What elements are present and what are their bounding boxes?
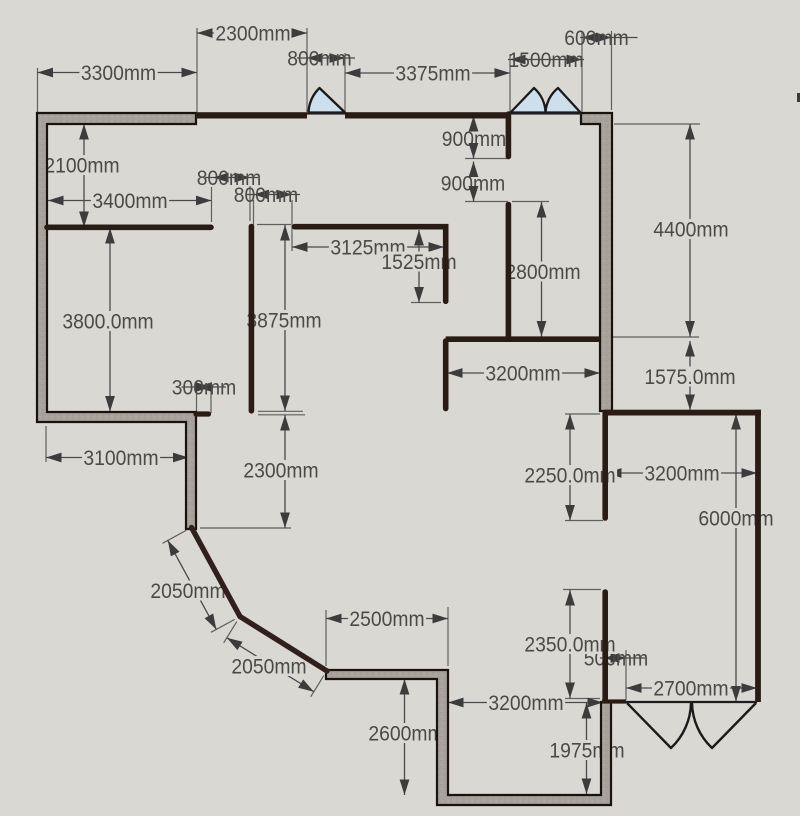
dimension 3400mm bbox=[48, 190, 212, 213]
extension line y411 for 3875mm bbox=[258, 410, 303, 412]
svg-text:3375mm: 3375mm bbox=[395, 63, 470, 86]
extension line x510 for 3375mm/1500mm bbox=[509, 54, 511, 112]
door sill single top bbox=[307, 113, 345, 115]
dimension 3375mm bbox=[345, 63, 510, 86]
extension line x211b for 300mm bbox=[210, 391, 212, 413]
extension line x197 for 2300mm/3300mm bbox=[196, 28, 198, 112]
dimension 2100mm bbox=[43, 124, 121, 227]
extension line y158 for 900mm bbox=[465, 158, 508, 160]
extension line x250 for 800mm bbox=[249, 186, 251, 221]
door double top right leaf bbox=[546, 88, 581, 113]
extension line x292 for 800mm-2/3125mm bbox=[291, 200, 293, 251]
svg-text:1500mm: 1500mm bbox=[508, 49, 583, 72]
interior wall horizontal left (y227) bbox=[47, 225, 211, 231]
svg-text:2300mm: 2300mm bbox=[215, 23, 290, 46]
door double bottom right leaf bbox=[692, 703, 756, 748]
wall thin top B (door to double door) bbox=[345, 112, 510, 118]
dimension 3300mm bbox=[38, 62, 198, 85]
extension line y124 for 4400mm bbox=[614, 123, 700, 125]
extension line y201 right for 2800mm bbox=[512, 201, 549, 203]
extension line x626 for 500mm/2700mm bbox=[625, 650, 627, 700]
interior wall vertical x508 upper bbox=[506, 114, 512, 157]
dimension 1525mm bbox=[380, 230, 458, 303]
extension line y224 for 3875mm bbox=[257, 224, 291, 226]
svg-text:2800mm: 2800mm bbox=[505, 261, 580, 284]
svg-text:4400mm: 4400mm bbox=[653, 219, 728, 242]
dimension 2800mm bbox=[504, 202, 582, 337]
extension line y201 left for 900mm bbox=[465, 201, 508, 203]
extension line y528 for 2300mm-left bbox=[200, 527, 291, 529]
dimension 3125mm bbox=[292, 237, 444, 260]
dimension 3200mm right room bbox=[606, 463, 757, 486]
dimension 1500mm bbox=[508, 49, 584, 72]
svg-text:3200mm: 3200mm bbox=[644, 463, 719, 486]
extension line y337 for 4400mm/1575.0mm bbox=[606, 336, 699, 338]
right room left wall lower bbox=[602, 592, 608, 700]
svg-text:2050mm: 2050mm bbox=[150, 580, 225, 603]
svg-text:2500mm: 2500mm bbox=[349, 608, 424, 631]
dimension 2300mm top bbox=[197, 23, 307, 46]
svg-text:300mm: 300mm bbox=[172, 377, 236, 400]
extension line y698 for 2350.0mm bbox=[563, 698, 600, 700]
dimension 900mm lower bbox=[439, 162, 506, 202]
dimension 3200mm bottom bbox=[448, 692, 603, 715]
diagonal wall upper bbox=[192, 528, 241, 617]
svg-text:3200mm: 3200mm bbox=[485, 363, 560, 386]
dimension 2050mm upper diagonal bbox=[149, 530, 235, 632]
door single top swing bbox=[309, 88, 346, 113]
dimension 1575.0mm bbox=[643, 341, 737, 410]
extension line y303 for 1525mm bbox=[411, 302, 441, 304]
wall stub 300mm at y414 bbox=[196, 411, 209, 416]
svg-text:800mm: 800mm bbox=[287, 48, 351, 71]
extension line x46 for 3100mm bbox=[45, 426, 47, 462]
dimension 500mm bbox=[584, 648, 648, 671]
door double top left leaf bbox=[511, 88, 546, 113]
wall stub 500mm at bottom door bbox=[602, 699, 626, 703]
extension line x611 for 600mm bbox=[611, 31, 613, 110]
door sill double top bbox=[510, 113, 581, 115]
clipped glyph at right edge bbox=[797, 93, 800, 102]
dimension 2700mm bbox=[626, 678, 757, 701]
svg-text:2050mm: 2050mm bbox=[231, 656, 306, 679]
svg-text:3100mm: 3100mm bbox=[83, 447, 158, 470]
dimension 800mm door bbox=[287, 48, 355, 71]
interior wall vertical x508 lower bbox=[506, 205, 512, 339]
dimension 2350.0mm bbox=[523, 590, 617, 698]
extension line x448 for 2500mm bbox=[447, 607, 449, 666]
extension line x307 for 2300mm/800mm door bbox=[306, 28, 308, 112]
svg-text:6000mm: 6000mm bbox=[698, 508, 773, 531]
outer wall bottom room (U shape) bbox=[326, 670, 611, 805]
outer wall top-right corner and right wall bbox=[581, 113, 612, 411]
interior wall vertical x446 lower bbox=[443, 341, 449, 409]
dimension 600mm bbox=[564, 27, 637, 50]
svg-text:2350.0mm: 2350.0mm bbox=[524, 634, 615, 657]
right room left wall upper bbox=[602, 413, 608, 518]
svg-text:3800.0mm: 3800.0mm bbox=[62, 311, 153, 334]
svg-text:2100mm: 2100mm bbox=[44, 155, 119, 178]
svg-text:1575.0mm: 1575.0mm bbox=[644, 366, 735, 389]
extension line y520 for 2250.0mm bbox=[565, 520, 603, 522]
extension line x345 for 3375mm/800mm bbox=[344, 53, 346, 112]
svg-text:3400mm: 3400mm bbox=[92, 190, 167, 213]
dimension 1975mm bbox=[548, 703, 626, 794]
extension line y589 for 2350.0mm bbox=[563, 589, 601, 591]
dimension 4400mm bbox=[652, 124, 730, 337]
svg-text:600mm: 600mm bbox=[564, 27, 628, 50]
interior wall vertical x251 bbox=[249, 227, 255, 411]
dimension 2600mm bbox=[367, 679, 445, 795]
dimension 3100mm bbox=[46, 447, 189, 470]
dimension 300mm bbox=[172, 377, 236, 400]
dimension 2050mm lower diagonal bbox=[224, 622, 324, 697]
svg-text:3300mm: 3300mm bbox=[81, 62, 156, 85]
extension line x196 for 300mm bbox=[196, 391, 198, 411]
dimension 800mm gap2 bbox=[234, 184, 300, 207]
door sill bottom double bbox=[626, 701, 757, 703]
svg-text:800mm: 800mm bbox=[234, 184, 298, 207]
svg-text:2600mm: 2600mm bbox=[368, 723, 443, 746]
svg-text:2700mm: 2700mm bbox=[653, 678, 728, 701]
dimension 800mm gap1 bbox=[197, 167, 261, 190]
extension line y415 for 2300mm-left bbox=[258, 414, 305, 416]
extension line x188 for 3100mm bbox=[188, 426, 190, 462]
dimension 2250.0mm bbox=[523, 414, 617, 521]
interior wall horizontal mid (y339) bbox=[446, 336, 600, 342]
dimension 900mm upper bbox=[440, 116, 507, 159]
extension line x253 for 800mm-2 bbox=[253, 200, 255, 225]
svg-text:2250.0mm: 2250.0mm bbox=[524, 465, 615, 488]
wall thin top A (between thick wall and door) bbox=[196, 112, 307, 118]
interior wall horizontal 2 (y226 x292-448) bbox=[295, 227, 446, 302]
extension line x582 for 1500mm/600mm bbox=[581, 31, 583, 112]
extension line y414 for 2250.0mm bbox=[565, 413, 600, 415]
right room top wall (y412) bbox=[604, 410, 761, 416]
extension line x326 for 2500mm bbox=[325, 610, 327, 666]
dimension 6000mm bbox=[697, 414, 775, 702]
svg-text:3200mm: 3200mm bbox=[488, 692, 563, 715]
right room right wall (x758) bbox=[755, 410, 761, 702]
svg-text:1975mm: 1975mm bbox=[549, 740, 624, 763]
svg-text:3875mm: 3875mm bbox=[246, 310, 321, 333]
outer wall left assembly (top + left + bottom-left + drop) bbox=[37, 113, 196, 529]
dimension 3200mm mid bbox=[447, 363, 600, 386]
diagonal wall lower bbox=[240, 617, 327, 672]
dimension 3800.0mm bbox=[61, 228, 155, 412]
dimension 3875mm bbox=[245, 225, 323, 411]
svg-text:2300mm: 2300mm bbox=[243, 460, 318, 483]
dimension 2500mm bbox=[326, 608, 448, 631]
door double bottom left leaf bbox=[627, 703, 691, 748]
extension line x211 for 3400mm/800mm bbox=[211, 187, 213, 222]
extension line x37 for 3300mm bbox=[37, 68, 39, 112]
dimension 2300mm left bbox=[242, 415, 320, 528]
